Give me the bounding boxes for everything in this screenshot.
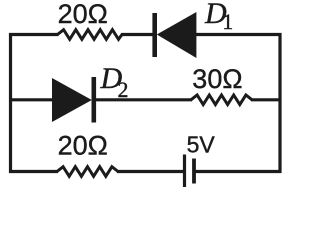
diode D2 triangle (pointing right) [52,78,92,122]
wire: top branch middle segment [121,33,153,36]
wire: middle branch middle segment [95,98,192,101]
wire: bottom branch left segment [9,170,58,173]
label D1 [204,0,233,34]
svg-text:1: 1 [222,9,233,34]
svg-text:5V: 5V [187,132,216,158]
svg-text:20Ω: 20Ω [58,131,108,161]
wire: left vertical bus [9,33,12,173]
wire: top branch right segment [196,33,282,36]
battery V1 long plate [183,155,186,188]
wire: top branch left segment [9,33,59,36]
battery V1 short plate [192,159,196,184]
label: 30 ohm value (middle resistor) [192,64,242,94]
diode D1 cathode bar [152,13,157,57]
label: 5V battery value [187,132,216,158]
label D2 [100,62,129,102]
wire: bottom branch right segment [195,170,282,173]
label: 20 ohm value (bottom resistor) [58,131,108,161]
wire: middle branch right segment [251,98,282,101]
diode D2 cathode bar [92,77,97,123]
wire: middle branch left segment [9,98,53,101]
resistor 20ohm (top branch) [58,30,123,40]
wire: right vertical bus [278,33,281,173]
svg-text:20Ω: 20Ω [58,0,108,29]
label: 20 ohm value (top resistor) [58,0,108,29]
resistor 30ohm (middle branch) [191,95,252,105]
svg-text:30Ω: 30Ω [192,64,242,94]
wire: bottom branch middle segment [117,170,184,173]
resistor 20ohm (bottom branch) [57,167,118,177]
diode D1 triangle (pointing left) [157,12,197,58]
